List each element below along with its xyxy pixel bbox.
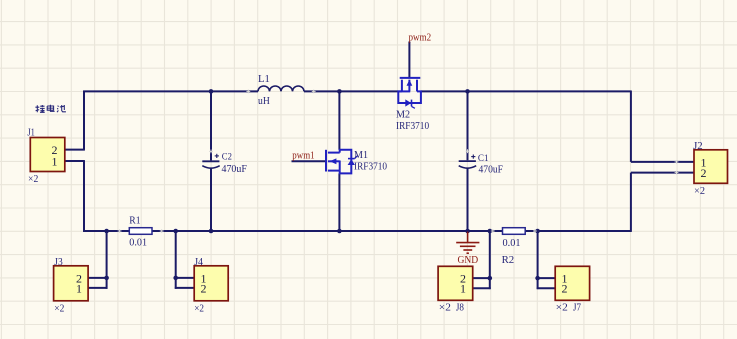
svg-text:J7: J7: [573, 302, 581, 313]
svg-text:0.01: 0.01: [129, 238, 147, 249]
svg-text:C2: C2: [222, 153, 232, 163]
svg-text:pwm1: pwm1: [292, 151, 314, 162]
svg-text:1: 1: [76, 281, 82, 295]
svg-text:R1: R1: [129, 216, 140, 227]
svg-text:×2: ×2: [556, 302, 568, 313]
svg-text:C1: C1: [478, 154, 489, 164]
svg-text:470uF: 470uF: [222, 164, 248, 175]
svg-text:M1: M1: [354, 150, 368, 161]
svg-text:470uF: 470uF: [479, 165, 504, 176]
svg-text:2: 2: [562, 282, 568, 296]
svg-text:1: 1: [460, 282, 466, 296]
svg-text:J4: J4: [194, 257, 203, 268]
svg-text:IRF3710: IRF3710: [354, 162, 387, 173]
svg-text:J2: J2: [693, 141, 703, 152]
svg-text:M2: M2: [396, 109, 410, 120]
svg-text:×2: ×2: [694, 186, 705, 197]
svg-text:uH: uH: [258, 96, 270, 107]
svg-text:×2: ×2: [28, 174, 38, 185]
svg-text:L1: L1: [258, 74, 270, 85]
svg-text:×2: ×2: [194, 303, 204, 314]
svg-text:2: 2: [701, 166, 707, 180]
svg-text:1: 1: [52, 154, 58, 168]
svg-text:×2: ×2: [439, 302, 451, 313]
svg-text:J3: J3: [54, 257, 62, 268]
svg-text:J1: J1: [27, 127, 35, 138]
svg-text:pwm2: pwm2: [409, 33, 432, 44]
svg-text:0.01: 0.01: [503, 238, 521, 249]
svg-text:IRF3710: IRF3710: [396, 121, 429, 132]
svg-text:2: 2: [201, 281, 207, 295]
svg-text:×2: ×2: [54, 303, 64, 314]
svg-text:GND: GND: [458, 255, 479, 266]
svg-text:R2: R2: [502, 255, 515, 266]
svg-text:J8: J8: [456, 302, 464, 313]
